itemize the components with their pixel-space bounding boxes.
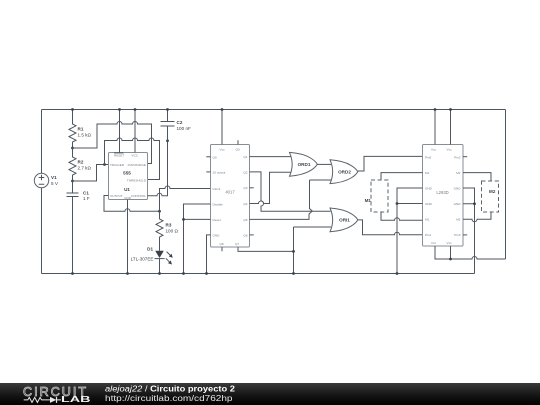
node C2 rail junction: [166, 108, 169, 111]
node disable/reset tie: [182, 218, 185, 221]
node RESET rail junction: [118, 108, 121, 111]
svg-text:Pin0: Pin0: [425, 155, 431, 159]
svg-text:4017: 4017: [225, 189, 235, 194]
svg-text:U1: U1: [124, 187, 130, 192]
wire ORD2 input 2 stub: [310, 179, 332, 181]
pin Q6 stub: [250, 234, 254, 236]
svg-text:V1: V1: [51, 175, 57, 180]
IC U3 L293D driver body: [423, 145, 464, 247]
svg-text:Pin1: Pin1: [425, 233, 431, 237]
wire Q1 to ORD1 input 1: [250, 156, 291, 158]
wire left rail from top rail to V1: [41, 110, 43, 174]
svg-text:Q2: Q2: [243, 170, 247, 174]
node ORI1 input 2 ground junction: [292, 272, 295, 275]
op-amp U1 555 timer body: [109, 153, 148, 201]
svg-text:Disable: Disable: [213, 202, 224, 206]
wire L293D M2 bottom to motor M2 (hops GND vertical): [463, 212, 491, 222]
pin Pin2 stub: [463, 156, 467, 158]
svg-text:5 V: 5 V: [51, 181, 59, 186]
wire 555 OUTPUT left-down-right to R3 node (hops GND wire): [104, 196, 160, 212]
svg-text:M2: M2: [489, 189, 496, 194]
svg-text:Vcc: Vcc: [447, 241, 453, 245]
node Q7 tie on ORI1 input 2 vertical: [292, 250, 295, 253]
svg-text:RESET: RESET: [114, 154, 124, 158]
logo schematic glyph: [24, 397, 61, 402]
resistor R1: [69, 110, 91, 149]
wire 4017 Disable to tie point: [184, 204, 211, 219]
node 4017 GND rail junction: [205, 272, 208, 275]
or-gate ORI1: [330, 208, 358, 232]
capacitor C1: [67, 181, 90, 274]
svg-text:100 Ω: 100 Ω: [166, 229, 179, 234]
svg-text:Q1: Q1: [243, 155, 247, 159]
node left GND ground rail junction: [396, 272, 399, 275]
node right GND tie: [473, 202, 476, 205]
svg-text:M2: M2: [456, 171, 461, 175]
svg-text:ORD2: ORD2: [338, 170, 351, 175]
svg-text:Q8: Q8: [220, 242, 224, 246]
wire right side rail from top rail down to Vcc bottom feed: [505, 110, 507, 260]
svg-text:Pin2: Pin2: [454, 155, 460, 159]
svg-text:VCC: VCC: [132, 154, 139, 158]
svg-text:M1: M1: [365, 198, 372, 203]
svg-text:ORD1: ORD1: [298, 162, 311, 167]
node reset ground junction: [182, 272, 185, 275]
pin Q8 stub: [221, 247, 223, 251]
wire ORI1 output right, down, to L293D Pin1 (hops GND vertical): [358, 220, 423, 235]
pin Q0 stub: [237, 140, 239, 144]
wire L293D right GND pins tied and down: [463, 188, 475, 274]
svg-text:LAB: LAB: [61, 395, 91, 404]
svg-text:GND: GND: [454, 202, 462, 206]
node bottom Vcc tie: [449, 258, 452, 261]
wire 555 GND pin down to ground rail: [127, 200, 129, 274]
svg-text:OUTPUT: OUTPUT: [110, 194, 123, 198]
node Vcc left rail junction: [434, 108, 437, 111]
node D1 ground junction: [158, 272, 161, 275]
wire 4017 Reset to tie point and down to ground rail: [184, 219, 211, 273]
svg-text:GND: GND: [124, 196, 132, 200]
svg-text:DISCHARGE: DISCHARGE: [128, 163, 146, 167]
wire ORI1 input 2 from ground net: [294, 226, 332, 228]
wire 555 CONTROL right to C2 branch (hops clock wire): [148, 141, 168, 196]
svg-text:R1: R1: [78, 127, 84, 132]
svg-text:Q0: Q0: [236, 147, 240, 151]
node trigger branch junction: [103, 163, 106, 166]
wire trigger branch up and right to THRESHOLD (hops stubs and discharge wire): [105, 138, 160, 180]
wire top +5V rail: [42, 109, 506, 111]
svg-text:C1: C1: [83, 191, 89, 196]
node R1 top junction: [71, 108, 74, 111]
svg-text:Q4: Q4: [243, 202, 247, 206]
node 555 GND rail junction: [126, 272, 129, 275]
motor M2: [482, 181, 499, 212]
svg-text:GND: GND: [425, 186, 433, 190]
node output/clock/R3 junction: [158, 210, 161, 213]
svg-text:TRIGGER: TRIGGER: [110, 163, 125, 167]
wire VCC pin stub to top rail: [134, 110, 136, 153]
IC U2 4017 decade counter body: [211, 145, 250, 248]
svg-text:10 output: 10 output: [213, 170, 226, 174]
voltage source V1: [34, 173, 59, 187]
wire L293D Vcc right stub to top rail: [450, 110, 452, 145]
svg-text:Vcc: Vcc: [447, 147, 453, 151]
svg-text:GND: GND: [454, 186, 462, 190]
svg-text:Q5: Q5: [243, 218, 247, 222]
svg-text:D1: D1: [147, 247, 153, 252]
svg-text:Vcc: Vcc: [431, 241, 437, 245]
svg-text:Q3: Q3: [243, 186, 247, 190]
capacitor C2: [161, 110, 191, 141]
wire R2 bottom to 555 TRIGGER: [73, 165, 109, 182]
svg-text:Clock: Clock: [213, 187, 221, 191]
svg-text:Q7: Q7: [235, 242, 239, 246]
svg-text:2.7 kΩ: 2.7 kΩ: [78, 166, 92, 171]
node R1-R2 junction: [71, 147, 74, 150]
wire ORI1 input 2 vertical down to ground rail: [293, 227, 295, 274]
wire Q5 right then jog up to ORI1 input 1 net: [250, 211, 313, 219]
node C1 ground junction: [71, 272, 74, 275]
wire 4017 GND down to ground rail: [207, 235, 211, 274]
svg-text:C2: C2: [177, 120, 183, 125]
node 4017 Vcc rail junction: [221, 108, 224, 111]
svg-text:ORI1: ORI1: [339, 218, 350, 223]
svg-text:100 nF: 100 nF: [177, 126, 191, 131]
resistor R2: [69, 148, 91, 181]
pin Q9 stub: [206, 156, 210, 158]
svg-text:R3: R3: [166, 223, 172, 228]
wire bottom ground rail: [42, 273, 475, 275]
pin Pin3 stub: [463, 234, 467, 236]
svg-text:Vcc: Vcc: [220, 147, 226, 151]
or-gate ORD2: [330, 160, 358, 184]
svg-text:M1: M1: [425, 218, 430, 222]
svg-text:1.5 kΩ: 1.5 kΩ: [78, 133, 92, 138]
svg-text:LTL-307EE: LTL-307EE: [131, 257, 154, 262]
svg-text:Pin3: Pin3: [454, 233, 460, 237]
wire L293D left GND pins tied and down to ground rail: [397, 188, 423, 274]
svg-text:M1: M1: [425, 171, 430, 175]
wire ORD2 output to L293D Pin0: [358, 156, 423, 171]
node R2 bottom junction: [71, 180, 74, 183]
wire V1 bottom to bottom rail: [41, 188, 43, 274]
motor M1: [365, 180, 388, 212]
svg-text:Q9: Q9: [213, 155, 217, 159]
node left GND tie: [396, 202, 399, 205]
wire L293D bottom Vcc pins to right rail (hops GND vertical): [435, 246, 506, 259]
svg-text:Q6: Q6: [243, 233, 247, 237]
svg-text:CONTROL: CONTROL: [131, 194, 146, 198]
svg-text:Vcc: Vcc: [431, 147, 437, 151]
node VCC rail junction: [134, 108, 137, 111]
wire R1/R2 junction to 555 DISCHARGE (hops over RESET and VCC stubs): [73, 122, 152, 164]
wire 4017 Clock to output node (hops C2/control vertical): [160, 186, 211, 211]
wire 4017 Q7 down and right to ORI1 input net: [238, 247, 294, 251]
svg-text:http://circuitlab.com/cd762hp: http://circuitlab.com/cd762hp: [105, 394, 233, 403]
wire Q4 right (hop over Q2 wire), up to ORD1 input 2: [250, 172, 291, 203]
svg-text:Reset: Reset: [213, 218, 221, 222]
svg-text:1 F: 1 F: [83, 196, 90, 201]
wire Q2 right, down (hop over Q4 wire), to ORI1 input 1: [250, 172, 331, 211]
wire ORD2 input 2 down to ORI1 input 1 net: [310, 180, 313, 211]
diode D1 LED: [131, 245, 173, 274]
wire RESET pin stub to top rail: [119, 110, 121, 153]
wire 4017 Vcc stub to top rail: [221, 110, 223, 145]
wire L293D M1 top to motor M1: [381, 173, 423, 180]
or-gate ORD1: [290, 152, 318, 176]
svg-text:alejoaj22 / Circuito proyecto: alejoaj22 / Circuito proyecto 2: [105, 385, 236, 394]
svg-text:THRESHOLD: THRESHOLD: [127, 178, 147, 182]
node C2 bottom junction: [166, 139, 169, 142]
pin Q3 stub: [250, 187, 254, 189]
pin 10-output stub: [206, 171, 210, 173]
wire L293D M2 top to motor M2: [463, 173, 491, 181]
wire L293D Vcc left stub to top rail: [434, 110, 436, 145]
wire L293D M1 bottom to motor M1 (hops GND vertical): [381, 212, 423, 220]
svg-text:GND: GND: [425, 202, 433, 206]
wire ORD1 output to ORD2 input 1: [317, 163, 331, 165]
svg-text:R2: R2: [78, 160, 84, 165]
svg-text:555: 555: [123, 171, 131, 176]
svg-text:M2: M2: [456, 218, 461, 222]
node Vcc right rail junction: [449, 108, 452, 111]
svg-text:GND: GND: [213, 233, 221, 237]
resistor R3: [156, 211, 178, 245]
footer bar: [0, 383, 540, 405]
svg-text:L293D: L293D: [436, 190, 448, 195]
